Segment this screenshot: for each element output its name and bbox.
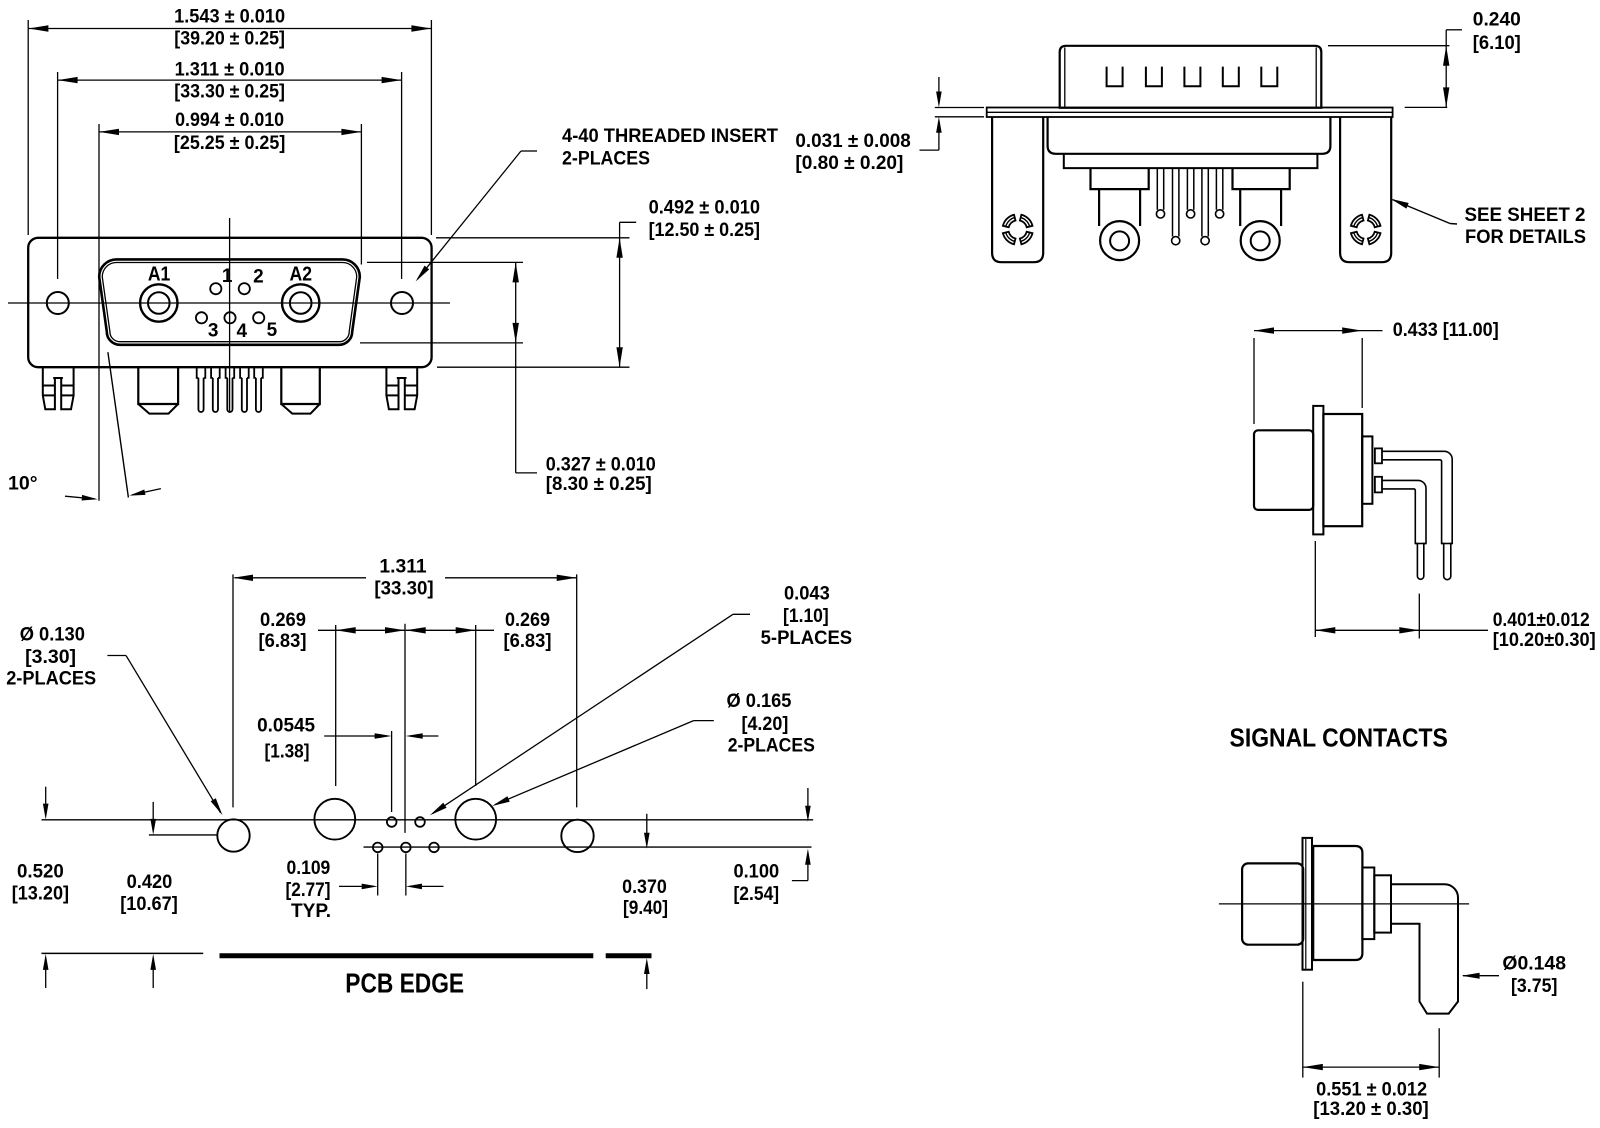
svg-text:1.311 ± 0.010: 1.311 ± 0.010 [175,59,285,81]
coax contact bent pin [1391,884,1458,1013]
0.994 left extension / 10 degree reference line [98,124,100,501]
dimension 0.269 left [259,609,406,786]
coax contact barrel [1313,846,1362,960]
pcb hole row 2 line [364,846,812,848]
label pin 1 [222,266,233,287]
svg-text:[12.50 ± 0.25]: [12.50 ± 0.25] [649,219,760,241]
svg-text:[6.10]: [6.10] [1473,32,1521,54]
pcb pin hole 5 [429,843,439,853]
10 degree slanted reference line [108,352,128,497]
svg-text:0.433 [11.00]: 0.433 [11.00] [1393,319,1499,341]
svg-text:[1.38]: [1.38] [265,741,310,763]
dimension 1.543 flange width [28,6,431,236]
svg-text:[4.20]: [4.20] [742,713,789,735]
pcb mounting hole left [217,819,249,851]
board lock left (front view) [43,367,74,409]
coax contact step2 [1374,875,1391,932]
label pin 3 [208,321,219,342]
svg-text:Ø 0.130: Ø 0.130 [20,624,85,646]
svg-text:0.031 ± 0.008: 0.031 ± 0.008 [795,130,910,152]
dimension 0.0545 pin offset [257,715,438,813]
pcb coax hole A1 [314,799,355,840]
signal pin tails (side view) [1156,168,1223,245]
signal contact step [1362,436,1372,503]
coax contact A1 (front view) [140,284,177,321]
dimension 0.100 row spacing [733,788,810,905]
svg-text:[8.30 ± 0.25]: [8.30 ± 0.25] [546,473,652,495]
connector front view flange outline [28,238,431,367]
label signal contacts [1230,725,1448,753]
pcb pin hole 4 [401,843,411,853]
svg-text:SEE SHEET 2: SEE SHEET 2 [1465,205,1586,226]
svg-text:Ø 0.165: Ø 0.165 [727,690,792,712]
dimension 0.269 right [406,609,552,786]
svg-text:0.109: 0.109 [287,857,331,879]
svg-text:4: 4 [237,321,248,342]
svg-text:[3.75]: [3.75] [1511,975,1557,997]
pcb mounting hole right [561,820,593,852]
signal pin 4 (front view) [224,312,235,323]
svg-text:1.543 ± 0.010: 1.543 ± 0.010 [174,6,285,28]
clocking symbol left bracket [1003,215,1033,245]
dimension 0.327 shell height [360,262,656,495]
label 10 degrees [8,472,38,494]
pcb centerline vertical [404,624,406,833]
signal pin 3 (front view) [196,312,207,323]
svg-text:Ø0.148: Ø0.148 [1502,953,1566,975]
svg-text:SIGNAL CONTACTS: SIGNAL CONTACTS [1230,725,1448,753]
svg-text:[10.20±0.30]: [10.20±0.30] [1493,629,1596,651]
label 4-40 threaded insert [562,125,778,170]
dimension 0.551 contact length [1303,982,1439,1120]
svg-text:A2: A2 [290,264,313,286]
svg-text:2-PLACES: 2-PLACES [6,668,96,690]
signal contact nub upper [1375,448,1382,463]
coax contact A2 (front view) [282,284,319,321]
bracket right (side view) [1340,117,1391,262]
10 degree right arrow [129,489,161,496]
svg-text:[2.77]: [2.77] [286,879,331,901]
leader diameter 0.130 2-places [6,624,222,816]
coax A2 solder post (front view) [281,367,320,413]
svg-text:[1.10]: [1.10] [783,605,829,627]
svg-text:[39.20 ± 0.25]: [39.20 ± 0.25] [174,28,285,50]
signal contact body [1323,414,1362,526]
label A2 [290,264,313,286]
svg-text:[33.30 ± 0.25]: [33.30 ± 0.25] [174,81,285,103]
svg-text:2-PLACES: 2-PLACES [728,735,815,757]
svg-text:[0.80 ± 0.20]: [0.80 ± 0.20] [795,152,903,174]
coax contact A1 (side view) [1091,168,1149,260]
coax contact centerline [1219,903,1469,905]
D-sub shell outline [99,259,360,344]
svg-text:[33.30]: [33.30] [374,578,433,600]
pcb edge line [42,953,652,955]
svg-text:3: 3 [208,321,219,342]
svg-text:FOR DETAILS: FOR DETAILS [1465,227,1586,248]
label pin 2 [253,267,264,288]
svg-text:1.311: 1.311 [379,556,426,578]
label A1 [148,264,171,286]
signal pin 5 (front view) [253,312,264,323]
dimension 0.520 [12,787,69,988]
coax contact flange disc [1303,838,1313,970]
coax A1 solder post (front view) [138,367,178,413]
coax contact A2 (side view) [1233,168,1290,260]
label see sheet 2 [1465,205,1587,248]
label pin 4 [237,321,248,342]
dimension 0.401 tail position [1315,541,1595,651]
svg-text:[3.30]: [3.30] [25,646,76,668]
svg-text:0.269: 0.269 [260,609,306,631]
coax contact step1 [1362,868,1374,940]
svg-text:4-40 THREADED INSERT: 4-40 THREADED INSERT [562,125,778,147]
dimension 0.370 [622,814,668,989]
mounting flange plate (side view) [987,108,1393,118]
leader 4-40 threaded insert [416,151,537,282]
dimension 1.311 mounting hole spacing [58,59,402,280]
svg-text:A1: A1 [148,264,171,286]
label pin 5 [267,320,278,341]
svg-text:0.100: 0.100 [733,860,779,882]
dimension 0.109 typ [286,854,444,923]
pcb pin hole 2 [415,817,425,827]
leader see sheet 2 [1391,199,1457,224]
svg-text:10°: 10° [8,472,38,494]
board lock right (front view) [386,367,417,409]
svg-text:0.492 ± 0.010: 0.492 ± 0.010 [649,197,761,219]
dimension 0.031 plate thickness [795,77,984,174]
pcb hole row 1 line [42,819,814,821]
label pcb edge [345,968,464,999]
front view horizontal centerline [8,302,450,304]
svg-text:0.420: 0.420 [127,871,173,893]
clocking symbol right bracket [1351,215,1381,245]
insulator body (side view) [1048,117,1331,168]
dimension 0.240 hood height [1328,9,1521,108]
leader diameter 0.165 2-places [492,690,815,806]
svg-text:PCB EDGE: PCB EDGE [345,968,464,999]
mounting hole right (front view) [391,292,413,314]
svg-text:0.370: 0.370 [622,876,667,898]
svg-text:[13.20 ± 0.30]: [13.20 ± 0.30] [1313,1098,1428,1120]
svg-text:0.240: 0.240 [1473,9,1521,31]
svg-text:2-PLACES: 2-PLACES [562,148,650,170]
front view vertical centerline [229,218,231,412]
signal contact nub lower [1375,477,1382,493]
svg-text:[2.54]: [2.54] [734,883,780,905]
svg-text:0.401±0.012: 0.401±0.012 [1493,609,1590,631]
signal contact lower wire [1382,480,1426,579]
dimension 0.994 shell width [99,109,361,265]
svg-text:0.043: 0.043 [784,582,830,604]
hood pin slots [1107,67,1278,87]
dimension 0.420 [120,802,178,988]
svg-text:[10.67]: [10.67] [120,893,178,915]
pcb coax hole A2 [455,799,496,840]
svg-text:0.0545: 0.0545 [257,715,315,737]
dimension 0.433 contact length [1254,319,1499,424]
svg-text:5: 5 [267,320,278,341]
pcb mounting hole line [149,834,218,836]
svg-text:5-PLACES: 5-PLACES [761,627,853,649]
svg-text:0.269: 0.269 [505,609,550,631]
bracket left (side view) [992,117,1043,262]
mounting hole left (front view) [47,292,69,314]
coax contact rear cylinder [1242,863,1303,944]
svg-text:1: 1 [222,266,233,287]
leader 0.043 5-places [430,582,852,815]
pcb pin hole 1 [387,817,397,827]
svg-text:0.994 ± 0.010: 0.994 ± 0.010 [175,109,284,131]
svg-text:[25.25 ± 0.25]: [25.25 ± 0.25] [174,132,285,154]
signal contact upper wire [1382,451,1452,579]
signal pin 2 (front view) [239,283,250,294]
side view hood [1060,46,1322,108]
svg-text:[6.83]: [6.83] [259,630,307,652]
signal contact flange disc [1313,406,1323,535]
svg-text:[13.20]: [13.20] [12,883,69,905]
signal pin legs (front view) [197,367,263,412]
signal contact barrel [1254,430,1313,510]
dimension 0.492 flange height [436,197,760,368]
svg-text:2: 2 [253,267,264,288]
svg-text:TYP.: TYP. [291,900,331,922]
leader diameter 0.148 [1462,953,1567,997]
pcb pin hole 3 [373,843,383,853]
signal pin 1 (front view) [210,283,221,294]
svg-text:[9.40]: [9.40] [623,897,668,919]
svg-text:[6.83]: [6.83] [504,630,552,652]
10 degree left arrow [65,495,98,501]
svg-text:0.520: 0.520 [17,860,64,882]
dimension 1.311 pcb mounting span [233,556,577,808]
